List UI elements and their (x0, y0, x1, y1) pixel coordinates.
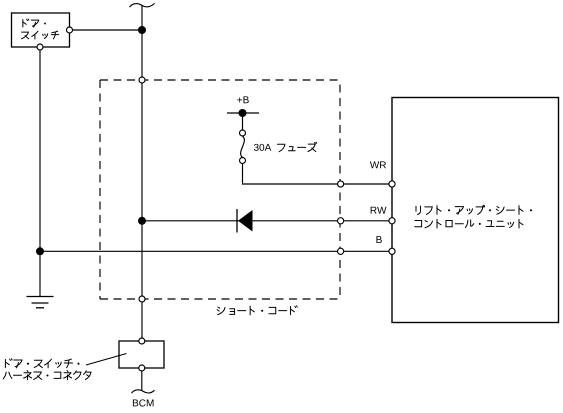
label 30A fuse (254, 144, 271, 151)
label control unit line2 (415, 219, 523, 228)
diode D1 (237, 209, 253, 233)
wire connector to BCM (141, 371, 143, 391)
terminal door switch bottom (37, 44, 43, 50)
terminal connector top (139, 338, 145, 344)
junction dot top (138, 26, 146, 34)
terminal connector bottom (139, 365, 145, 371)
junction dot B left (36, 247, 44, 255)
label harness connector line1 (5, 359, 79, 368)
wire door switch to junction (70, 29, 143, 31)
open circle dashed bottom crossing (139, 296, 145, 302)
wire door switch down to ground (39, 50, 41, 297)
control unit box (392, 98, 559, 323)
+B junction dot (239, 109, 247, 117)
label door switch line2 (21, 31, 58, 39)
junction dot RW (138, 217, 146, 225)
label harness connector line2 (3, 371, 91, 380)
terminal WR left (338, 181, 344, 187)
open circle dashed top crossing (139, 77, 145, 83)
wire RW line (142, 220, 392, 222)
break squiggle bottom (132, 390, 155, 393)
label B (376, 236, 381, 243)
label WR (370, 161, 386, 168)
leader line (86, 354, 127, 366)
fuse 30A (240, 130, 246, 164)
break squiggle top (130, 3, 155, 7)
label RW (371, 207, 387, 214)
door switch box (12, 13, 70, 47)
ground symbol (27, 297, 54, 308)
terminal B box (389, 248, 395, 254)
label BCM (133, 399, 154, 406)
terminal WR box (389, 181, 395, 187)
+B label (237, 96, 248, 103)
+B supply bar (227, 112, 259, 114)
terminal RW box (389, 218, 395, 224)
label door switch line1 (23, 19, 46, 27)
terminal RW left (338, 218, 344, 224)
terminal B left (338, 248, 344, 254)
wire B line (40, 250, 392, 252)
main vertical wire (141, 5, 143, 338)
wire fuse to WR (243, 164, 393, 185)
wire +B to fuse (242, 113, 244, 130)
label control unit line1 (416, 205, 532, 214)
label short code (217, 306, 297, 315)
terminal door switch right (67, 27, 73, 33)
connector box (119, 341, 164, 368)
short-code dashed box (100, 80, 340, 299)
